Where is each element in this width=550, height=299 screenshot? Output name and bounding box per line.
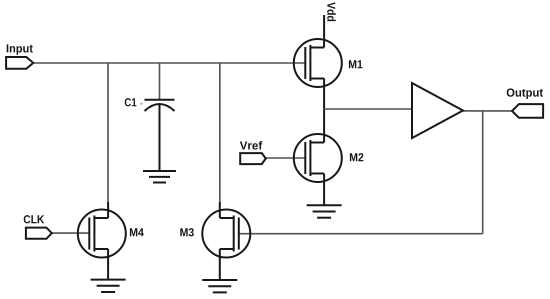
wire: M1 source to M2 drain: [323, 79, 325, 143]
label M2: [350, 153, 364, 161]
port tag CLK: [26, 228, 52, 239]
transistor M4: [78, 202, 126, 280]
label CLK: [24, 215, 44, 223]
port tag Input: [6, 57, 33, 69]
transistor M2: [294, 134, 342, 205]
label Input: [7, 44, 33, 54]
label M4: [130, 228, 144, 236]
wire: feedback vertical from output node: [482, 111, 484, 234]
port tag Vref: [240, 153, 266, 164]
ground under M3: [202, 280, 237, 292]
wire: input rail from Input tag to M1 gate: [33, 62, 305, 64]
port tag Output (points left): [512, 104, 543, 118]
transistor M3 (mirrored): [202, 202, 250, 280]
wire: branch down to C1: [159, 63, 161, 100]
wire: Vref tag to M2 gate: [265, 157, 305, 159]
ground under C1: [143, 171, 176, 183]
power label Vdd (rotated): [327, 2, 336, 21]
wire: branch down to M4 drain: [107, 63, 109, 203]
wire: branch down to M3 drain: [219, 63, 221, 203]
wire: op-amp output to Output tag: [463, 110, 513, 112]
label Vref: [240, 141, 262, 150]
label C1: [125, 98, 137, 106]
ground under M2: [307, 205, 342, 217]
label M3: [180, 228, 194, 236]
tiny dot after C1: [140, 103, 142, 105]
wire: feedback horizontal to M3 gate: [239, 233, 483, 235]
wire: node to op-amp input: [324, 108, 412, 110]
ground under M4: [91, 280, 126, 292]
transistor M1: [294, 15, 342, 87]
capacitor C1: [145, 100, 175, 171]
op-amp U1 (buffer): [412, 83, 463, 138]
label Output: [507, 88, 543, 99]
label M1: [349, 60, 363, 68]
wire: CLK tag to M4 gate: [51, 232, 89, 234]
